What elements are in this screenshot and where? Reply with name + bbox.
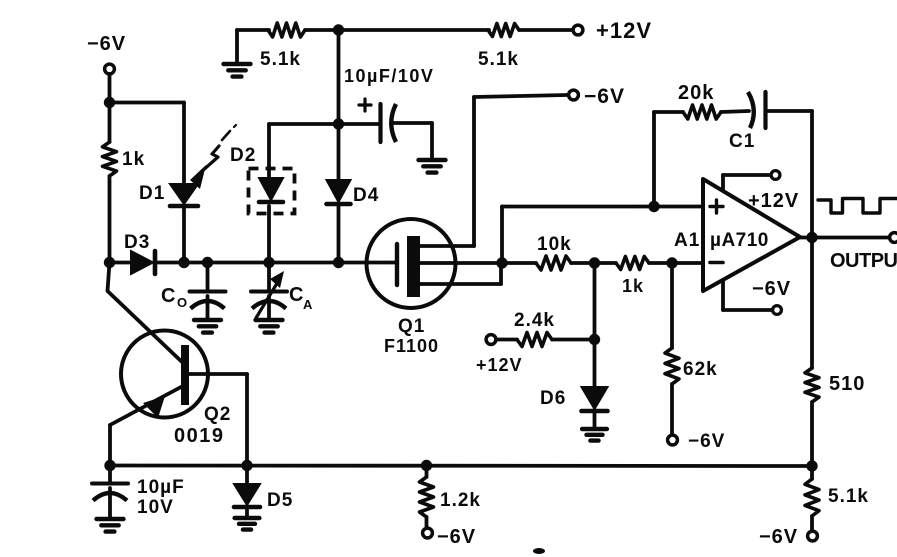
svg-text:A: A — [303, 297, 313, 312]
svg-text:510: 510 — [829, 373, 865, 395]
node - input junction — [666, 257, 677, 268]
wire to op-amp + input — [502, 207, 703, 264]
resistor 510 — [805, 368, 865, 402]
ground (10uF bottom) — [97, 519, 124, 532]
ground (top left, under 5.1k bus) — [224, 30, 251, 77]
node row junctions — [104, 257, 344, 268]
node Q1 output — [496, 257, 507, 268]
wire node row left — [110, 261, 132, 265]
wire 10k to 1k — [571, 261, 616, 265]
wire 62k to terminal — [670, 384, 674, 434]
resistor 5.1k (top right) — [478, 24, 519, 71]
light arrow (D1) — [190, 125, 236, 189]
svg-text:−6V: −6V — [437, 526, 476, 548]
wire 1k to - input — [649, 261, 703, 265]
ground (10uF top) — [419, 160, 446, 173]
diode D6 — [540, 387, 608, 411]
wire Q1 top electrode — [420, 97, 474, 246]
capacitor 10uF/10V (top) — [344, 66, 434, 142]
wire output down — [810, 238, 814, 369]
resistor 1.2k — [420, 466, 481, 518]
wire 1k to node row — [108, 176, 112, 263]
terminal -6V (62k) — [668, 431, 726, 452]
wire x338 upper — [337, 30, 341, 180]
resistor 5.1k (top left) — [260, 23, 305, 70]
wire x338 lower — [337, 206, 341, 263]
svg-text:+12V: +12V — [476, 355, 523, 375]
wire -6V down — [108, 74, 112, 142]
wire D6 to ground — [593, 413, 597, 428]
node cap junction — [333, 118, 344, 129]
terminal -6V (bottom right) — [759, 526, 817, 548]
svg-text:D3: D3 — [124, 232, 150, 253]
ink speck (bottom center) — [533, 548, 545, 554]
node 2.4k junction — [589, 334, 600, 345]
resistor 1k (input) — [616, 257, 649, 297]
resistor 2.4k — [496, 310, 555, 347]
svg-text:−6V: −6V — [87, 33, 126, 55]
svg-text:D1: D1 — [139, 183, 165, 204]
svg-text:10µF/10V: 10µF/10V — [344, 66, 434, 86]
terminal +12V (op-amp) — [748, 171, 799, 212]
svg-text:+12V: +12V — [596, 18, 652, 43]
op-amp A1 uA710 — [674, 179, 800, 291]
svg-text:−6V: −6V — [584, 85, 625, 108]
transistor Q1 F1100 — [367, 219, 456, 356]
svg-text:C1: C1 — [729, 131, 755, 152]
node base-bus junction — [241, 460, 252, 471]
svg-text:D4: D4 — [353, 185, 379, 206]
node 10k-1k junction — [589, 257, 600, 268]
svg-text:10V: 10V — [137, 497, 174, 518]
node bottom right junction — [806, 460, 817, 471]
svg-text:D6: D6 — [540, 388, 566, 409]
wire top bus left — [237, 28, 269, 32]
svg-text:OUTPUT: OUTPUT — [830, 250, 897, 272]
svg-text:D5: D5 — [267, 490, 293, 511]
ground (CA) — [256, 320, 283, 333]
node + input / feedback junction — [648, 201, 659, 212]
ground (D5) — [235, 518, 260, 530]
svg-text:D2: D2 — [230, 145, 256, 166]
terminal -6V (op-amp) — [752, 278, 791, 314]
variable capacitor CA — [251, 263, 313, 320]
svg-text:5.1k: 5.1k — [478, 49, 519, 70]
svg-text:O: O — [177, 295, 188, 310]
capacitor 10uF/10V (bottom) — [92, 466, 185, 519]
wire op-amp +12V pin — [723, 175, 770, 191]
terminal -6V (1.2k) — [423, 526, 477, 548]
svg-text:62k: 62k — [683, 359, 718, 380]
node top bus junction — [333, 24, 344, 35]
wire feedback up — [652, 112, 656, 207]
svg-text:−6V: −6V — [759, 526, 798, 548]
wire Q2 emitter — [110, 387, 181, 466]
resistor 1k (left) — [103, 142, 146, 176]
wire Q2 collector — [108, 263, 183, 363]
wire D2 to node row — [267, 206, 271, 263]
svg-text:5.1k: 5.1k — [828, 486, 869, 507]
wire to D2 branch — [269, 124, 339, 178]
svg-text:1k: 1k — [622, 276, 644, 296]
wire Q1 to -6V terminal — [474, 95, 567, 97]
resistor 62k — [665, 348, 718, 384]
wire Q1 middle electrode — [420, 261, 536, 265]
terminal +12V (top right) — [573, 18, 652, 43]
wire - input down — [670, 263, 674, 348]
resistor 10k — [536, 234, 572, 270]
svg-text:C: C — [161, 285, 176, 307]
wire cap junction to C plate — [339, 122, 379, 126]
wire 510 to bus — [810, 402, 814, 466]
diode D3 — [124, 232, 155, 274]
wire 2.4k to junction — [552, 338, 595, 342]
diode D4 — [327, 180, 380, 206]
node 1.2k junction — [421, 460, 432, 471]
svg-text:0019: 0019 — [174, 425, 225, 447]
svg-text:5.1k: 5.1k — [260, 49, 301, 70]
svg-text:A1: A1 — [674, 230, 700, 251]
resistor 20k — [654, 82, 721, 119]
node output junction — [806, 232, 817, 243]
svg-text:−6V: −6V — [752, 278, 791, 300]
wire top bus middle — [305, 28, 489, 32]
node -6V junction — [104, 97, 115, 108]
svg-text:Q1: Q1 — [398, 316, 425, 337]
svg-text:1.2k: 1.2k — [440, 490, 481, 511]
wire Q2 base — [189, 374, 247, 466]
terminal output — [890, 233, 897, 243]
square wave symbol — [818, 199, 897, 214]
photodiode D1 — [139, 183, 198, 206]
ground (Co) — [194, 320, 221, 333]
wire op-amp -6V pin — [723, 280, 771, 310]
wire D5 to ground — [245, 509, 249, 517]
wire 20k to C1 — [721, 111, 749, 112]
resistor 5.1k (bottom right) — [805, 479, 869, 516]
wire C1 to output node — [766, 111, 812, 238]
terminal +12V (2.4k) — [476, 335, 523, 375]
terminal -6V (Q1 drain) — [569, 85, 625, 108]
wire 10k junction down — [593, 263, 597, 387]
ground (D6) — [582, 429, 607, 441]
svg-text:10k: 10k — [537, 234, 572, 255]
capacitor Co — [161, 263, 226, 320]
svg-text:10µF: 10µF — [137, 477, 185, 498]
capacitor C1 — [729, 92, 766, 152]
terminal -6V (top left) — [87, 33, 126, 74]
svg-text:1k: 1k — [122, 149, 145, 170]
wire to D1 top — [110, 103, 185, 184]
node emitter-bus junction — [104, 460, 115, 471]
wire output — [800, 236, 889, 240]
wire to +12V terminal — [519, 28, 572, 32]
diode D2 — [230, 145, 295, 214]
wire 1.2k to terminal — [425, 517, 429, 527]
wire cap to ground — [393, 123, 432, 159]
svg-text:+12V: +12V — [748, 190, 799, 212]
transistor Q2 0019 — [121, 331, 231, 448]
svg-text:F1100: F1100 — [384, 336, 439, 356]
svg-text:Q2: Q2 — [204, 404, 231, 425]
svg-text:−6V: −6V — [688, 431, 725, 452]
wire Q1 bottom electrode — [420, 263, 501, 284]
label OUTPUT — [830, 250, 897, 272]
wire D1 to node row — [182, 206, 186, 263]
svg-text:2.4k: 2.4k — [514, 310, 555, 331]
svg-text:20k: 20k — [678, 82, 714, 104]
wire bottom bus — [110, 464, 812, 468]
wire node row to Q1 gate — [157, 261, 395, 265]
svg-text:µA710: µA710 — [710, 230, 769, 251]
diode D5 — [234, 466, 293, 512]
wire 5.1k to terminal — [810, 466, 814, 530]
